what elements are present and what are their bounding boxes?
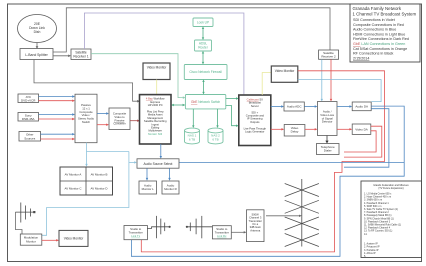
Audio Monitor R box: [162, 181, 179, 194]
svg-text:Video Monitor: Video Monitor: [147, 66, 168, 70]
svg-text:Audio Connections in Blue: Audio Connections in Blue: [353, 28, 396, 32]
svg-text:AV Monitor D: AV Monitor D: [91, 187, 108, 191]
Studio to Transmitter Link Tx box: [124, 226, 147, 240]
audio wire workflow to source select: [160, 144, 162, 159]
svg-text:RF Connections in Black: RF Connections in Black: [353, 52, 394, 56]
Look UP green box: [193, 18, 213, 27]
svg-text:Monitor SDI: Monitor SDI: [148, 132, 162, 136]
bottom-left video monitor: [59, 230, 88, 246]
Other Sources box: [19, 132, 41, 142]
svg-text:Monitor: Monitor: [26, 239, 36, 243]
composite wire delay to loss detector: [305, 128, 318, 130]
svg-text:AV Monitor A: AV Monitor A: [65, 173, 82, 177]
svg-text:Antenna: Antenna: [250, 228, 261, 232]
composite wire Video DA stub 2: [344, 131, 376, 152]
audio loop Audio DA around to STL Tx: [131, 106, 404, 256]
Audio DA box: [352, 102, 371, 111]
audio wire Audio DA stub: [344, 109, 389, 168]
Modulation Monitor box: [20, 234, 42, 245]
green wire switch to workflow PC: [171, 104, 185, 106]
svg-text:Video Monitor: Video Monitor: [275, 69, 296, 73]
STL Rx yagi antenna: [186, 216, 213, 238]
500W channel 3 transmitter box: [247, 210, 265, 242]
Sony DSR-45A box: [18, 113, 39, 122]
svg-text:Dish: Dish: [34, 30, 41, 34]
HDMI loop monitor right to Audio DA: [298, 80, 381, 102]
center video monitor: [143, 63, 170, 80]
svg-text:Cat 5/Sat Connections in Orang: Cat 5/Sat Connections in Orange: [353, 47, 407, 51]
composite wire switch to converter: [97, 124, 109, 126]
Video Delay box: [284, 125, 305, 137]
svg-text:Detector: Detector: [322, 120, 333, 124]
composite wire jvc to switch: [39, 100, 76, 102]
svg-text:Audio ADC: Audio ADC: [287, 105, 303, 109]
svg-text:Dialer: Dialer: [324, 149, 332, 153]
audio wire loss detector to Audio DA: [337, 105, 352, 107]
GbE LAN pale wire receiver1 to switch: [91, 54, 185, 99]
green wires switch to NAS drives: [192, 109, 194, 128]
JVC DVD+VCR box: [18, 94, 39, 103]
NAS 1 cylinder: [185, 128, 200, 144]
composite wire modulation monitor to video monitor: [42, 239, 59, 241]
off-air receive antenna: [15, 203, 35, 223]
L-Band Splitter: [20, 49, 53, 60]
svg-text:HP 2400 PC: HP 2400 PC: [148, 103, 163, 107]
audio wires source select to monitors: [146, 168, 148, 181]
Passive 12x1 AV switch: [75, 94, 97, 143]
Video DA box: [352, 124, 371, 134]
svg-text:Receiver 1: Receiver 1: [73, 55, 88, 59]
svg-text:DSR-45A: DSR-45A: [22, 117, 35, 121]
audio wire audio source select long run: [179, 162, 404, 164]
Audio Source Select box: [137, 159, 179, 168]
green wire firewall to switch: [202, 79, 204, 94]
SDI yellow wire monitor to workflow: [156, 80, 158, 95]
svg-text:Switch: Switch: [82, 120, 91, 124]
SDI violet wire receiver1 to broadcast server: [84, 13, 244, 94]
svg-text:Logic Generator: Logic Generator: [245, 130, 264, 134]
notes box: [361, 181, 422, 258]
legend box: [350, 4, 420, 62]
svg-text:Monitor R: Monitor R: [164, 187, 177, 191]
svg-text:Link Tx: Link Tx: [131, 234, 141, 238]
svg-text:5.: 5.: [364, 255, 366, 258]
NAS 2 cylinder: [208, 128, 223, 144]
svg-text:Look UP: Look UP: [197, 21, 209, 25]
Composite to FireWire converter: [109, 108, 130, 130]
svg-text:Router: Router: [198, 46, 209, 50]
right video monitor: [271, 66, 298, 82]
Cisco Network Firewall green box: [184, 65, 227, 80]
svg-text:FireWire Connections in Dark R: FireWire Connections in Dark Red: [353, 37, 409, 41]
svg-text:2/15/2014: 2/15/2014: [353, 56, 369, 60]
composite wire loss detector to Video DA: [337, 128, 352, 130]
svg-text:6 TB: 6 TB: [189, 137, 195, 141]
audio wire ADC to loss detector: [304, 105, 317, 107]
Cablecast SX broadcast server: [239, 95, 271, 146]
AV loss of signal detector: [318, 102, 338, 136]
svg-text:GbE Network Switch: GbE Network Switch: [191, 100, 220, 104]
green wire lookup to adsl: [202, 26, 204, 40]
svg-text:DVD+VCR: DVD+VCR: [21, 98, 36, 102]
svg-text:Video DA: Video DA: [355, 127, 368, 131]
Studio Transmitter Link Rx box: [212, 226, 231, 239]
SDI yellow wire server to right monitor: [262, 73, 271, 96]
audio wire jvc to switch: [39, 95, 76, 97]
composite wire receiver2 down to loss detector: [330, 59, 332, 101]
black wire loss detector to telephone dialer: [325, 136, 328, 144]
Audio ADC box: [284, 102, 304, 111]
audio wire other to switch: [41, 133, 76, 135]
composite loop monitor right around to STL Tx: [141, 71, 384, 252]
svg-text:1 Channel TV Broadcast System: 1 Channel TV Broadcast System: [353, 11, 417, 16]
HDMI wire AV switch down to monitor table and source select: [85, 143, 87, 167]
satellite receiver 1: [71, 49, 91, 60]
svg-text:Link Rx: Link Rx: [217, 234, 227, 238]
svg-text:Receiver 2: Receiver 2: [321, 55, 336, 59]
black wire STL Rx to transmitter: [231, 231, 246, 233]
svg-text:Video Monitor: Video Monitor: [64, 237, 85, 241]
svg-text:GbE LAN Connections in Green: GbE LAN Connections in Green: [353, 42, 405, 46]
svg-text:AV Monitor C: AV Monitor C: [65, 187, 82, 191]
Audio Monitor L box: [139, 181, 157, 194]
broadcast bowtie antenna mast: [285, 179, 319, 247]
4 Bay Workflow Express PC: [140, 95, 172, 144]
svg-text:Audio DA: Audio DA: [355, 105, 368, 109]
GbE Network Switch green box: [185, 95, 225, 109]
green wire adsl to firewall: [202, 51, 204, 65]
HDMI wire receiver2 down to loss detector: [321, 59, 323, 101]
svg-text:14.: 14.: [364, 233, 368, 236]
RF wire splitter down to workflow PC: [34, 60, 140, 103]
wire antenna to modulation monitor: [15, 212, 22, 234]
svg-text:Outputs: Outputs: [250, 120, 260, 124]
svg-text:Monitor L: Monitor L: [142, 187, 154, 191]
black wire transmitter to antenna mast: [266, 215, 302, 217]
audio wire switch to converter: [97, 112, 109, 114]
firewire wire converter to workflow: [130, 120, 140, 122]
svg-text:Server: Server: [251, 104, 259, 108]
svg-text:HDMI Connections in Light Blue: HDMI Connections in Light Blue: [353, 32, 405, 36]
svg-text:SDI Connections in Violet: SDI Connections in Violet: [353, 18, 395, 22]
composite wire other to switch: [41, 138, 76, 140]
composite wire server to video delay: [271, 128, 284, 130]
svg-text:Granada Family Network: Granada Family Network: [353, 6, 402, 11]
satellite dish ellipse 20E Down Link Dish: [18, 15, 57, 43]
svg-text:Audio Source Select: Audio Source Select: [144, 162, 173, 166]
satellite receiver 2: [319, 50, 339, 59]
STL Tx yagi antenna: [147, 216, 170, 238]
audio wire server to ADC: [271, 105, 284, 107]
audio wire sony to switch: [39, 113, 76, 115]
svg-text:(TV Future Expansion): (TV Future Expansion): [378, 187, 403, 190]
svg-text:AV Monitor B: AV Monitor B: [91, 173, 108, 177]
svg-text:L-Band Splitter: L-Band Splitter: [25, 53, 48, 57]
wire splitter to receiver1: [53, 55, 71, 58]
svg-text:Cisco Network Firewall: Cisco Network Firewall: [189, 70, 222, 74]
ADSL Router green box: [195, 40, 212, 51]
svg-text:Sources: Sources: [24, 136, 36, 140]
RF wire splitter up and across top to receiver2: [53, 8, 330, 52]
wire dish to splitter: [36, 43, 39, 50]
svg-text:Converter: Converter: [113, 122, 125, 126]
Telephone Dialer box: [317, 144, 340, 155]
svg-text:6 TB: 6 TB: [212, 137, 218, 141]
green wire switch to broadcast server: [226, 97, 239, 99]
composite wire sony to switch: [39, 118, 76, 120]
svg-text:13. To RF Counter, SDI (1): 13. To RF Counter, SDI (1): [364, 230, 392, 233]
AV monitor table: [60, 167, 113, 195]
svg-text:Delay: Delay: [291, 130, 299, 134]
composite wire Video DA stub 1: [344, 126, 382, 157]
svg-text:Composite Connections in Red: Composite Connections in Red: [353, 23, 404, 27]
